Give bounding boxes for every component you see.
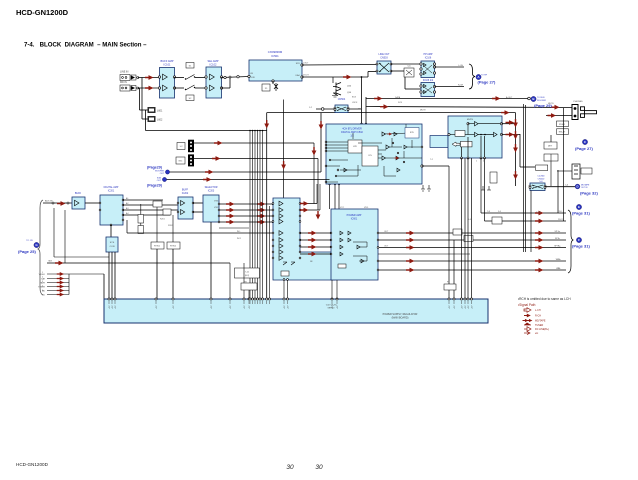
svg-text:(Page 27): (Page 27)	[478, 80, 496, 85]
svg-text:(Page 31): (Page 31)	[572, 244, 590, 249]
svg-text:IC203: IC203	[208, 190, 215, 193]
svg-text:IC202: IC202	[182, 192, 189, 195]
svg-text:DET: DET	[548, 146, 553, 148]
svg-text:PHONES: PHONES	[573, 101, 583, 103]
svg-text:HCD-GN1200D: HCD-GN1200D	[16, 8, 69, 17]
svg-text:SCK: SCK	[398, 102, 403, 104]
svg-text:IC201: IC201	[108, 190, 115, 193]
svg-text:IC101: IC101	[164, 63, 171, 67]
svg-text:RY601: RY601	[559, 124, 566, 126]
svg-text:CN503: CN503	[380, 57, 388, 60]
svg-text:CD-MD: CD-MD	[537, 176, 545, 178]
svg-text:IC106 2/2: IC106 2/2	[423, 79, 434, 82]
svg-text:MUTE: MUTE	[467, 119, 474, 121]
svg-text:AUX IN: AUX IN	[45, 200, 53, 203]
svg-text:•RCH is omitted due to same as: •RCH is omitted due to same as LCH	[518, 297, 571, 301]
svg-text:(8-2): (8-2)	[245, 275, 250, 277]
svg-text:LINE IN: LINE IN	[120, 71, 129, 74]
svg-text:TO HP: TO HP	[481, 75, 488, 77]
svg-text:IC601: IC601	[351, 218, 358, 221]
svg-text:SPO: SPO	[296, 63, 301, 65]
svg-text:MUTE: MUTE	[548, 103, 554, 105]
svg-text:OUT IN: OUT IN	[581, 187, 588, 189]
svg-text:RY901: RY901	[154, 246, 161, 248]
svg-text:(Page 27): (Page 27)	[575, 146, 593, 151]
svg-text:L601: L601	[157, 110, 163, 113]
svg-text:(Page29): (Page29)	[147, 184, 163, 188]
svg-text:F: F	[578, 238, 580, 242]
svg-text:•Signal Path: •Signal Path	[518, 303, 536, 307]
svg-text:VDD: VDD	[364, 207, 369, 209]
svg-text:SEL AMP: SEL AMP	[207, 59, 218, 63]
svg-text:IC501: IC501	[271, 54, 279, 58]
svg-text:LIN: LIN	[250, 73, 254, 75]
svg-text:LOUT: LOUT	[303, 63, 309, 65]
svg-text:(Page 32): (Page 32)	[580, 191, 598, 196]
svg-text:LRCK: LRCK	[352, 102, 358, 104]
svg-text:PH R: PH R	[558, 219, 563, 221]
svg-text:BUFF: BUFF	[75, 192, 82, 195]
svg-text:DC LINE(B+): DC LINE(B+)	[535, 328, 549, 331]
svg-text:MIC: MIC	[179, 161, 183, 163]
svg-text:L602: L602	[157, 119, 163, 122]
svg-text:D: D	[576, 185, 578, 189]
svg-text:(Page 25): (Page 25)	[18, 249, 36, 254]
svg-text:RELAY: RELAY	[559, 131, 566, 134]
svg-text:LIN: LIN	[251, 77, 255, 79]
svg-text:DOUT: DOUT	[303, 75, 309, 77]
svg-text:TO CD: TO CD	[26, 240, 33, 242]
svg-text:TUNER: TUNER	[535, 324, 544, 327]
svg-text:IC106: IC106	[425, 57, 432, 60]
svg-text:DAO: DAO	[296, 74, 301, 77]
svg-text:LPF: LPF	[353, 146, 358, 148]
svg-text:BUFF AMP: BUFF AMP	[161, 59, 174, 63]
svg-text:P-ON: P-ON	[536, 212, 542, 214]
svg-text:IN R: IN R	[237, 238, 242, 240]
svg-text:MD IN: MD IN	[120, 81, 127, 84]
svg-text:WOOFER: WOOFER	[537, 100, 547, 102]
svg-text:MUTE: MUTE	[420, 110, 426, 112]
svg-text:CN504: CN504	[338, 98, 346, 101]
svg-text:VCC: VCC	[340, 207, 345, 209]
svg-text:SYS: SYS	[110, 242, 115, 244]
svg-text:CON: CON	[110, 246, 115, 248]
svg-text:5-6: 5-6	[565, 185, 568, 187]
svg-text:(Page29): (Page29)	[147, 166, 163, 170]
svg-text:(Page 31): (Page 31)	[572, 211, 590, 216]
svg-text:30: 30	[315, 464, 323, 471]
svg-text:HCD-GN1200D: HCD-GN1200D	[16, 462, 49, 467]
svg-text:TO SUB: TO SUB	[537, 97, 545, 99]
svg-text:R-CH: R-CH	[458, 85, 464, 87]
svg-text:E: E	[578, 205, 580, 209]
svg-text:30: 30	[286, 464, 294, 471]
svg-text:DATA: DATA	[395, 96, 401, 99]
svg-text:L-CH: L-CH	[458, 65, 463, 67]
svg-text:R-CH: R-CH	[535, 315, 541, 318]
svg-text:W-: W-	[558, 268, 561, 270]
svg-text:PDN: PDN	[358, 109, 363, 111]
svg-text:IC102: IC102	[210, 63, 217, 67]
svg-text:RY902: RY902	[170, 246, 177, 248]
svg-text:CN602: CN602	[538, 178, 546, 180]
svg-text:A-OUT: A-OUT	[506, 96, 513, 99]
svg-text:MD/TAPE: MD/TAPE	[535, 320, 546, 323]
svg-text:BCK: BCK	[352, 97, 357, 99]
svg-text:L-CH: L-CH	[535, 309, 541, 312]
svg-text:(MAIN BOARD): (MAIN BOARD)	[392, 317, 409, 320]
svg-text:7-4. BLOCK DIAGRAM – MAIN: 7-4. BLOCK DIAGRAM – MAIN Section –	[24, 42, 147, 49]
